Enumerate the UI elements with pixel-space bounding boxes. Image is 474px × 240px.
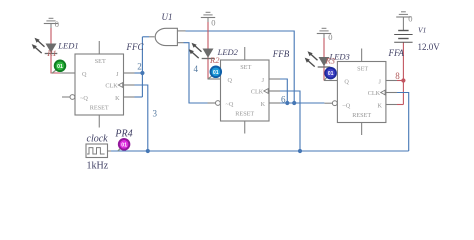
svg-text:RESET: RESET [352,112,371,119]
svg-text:R3: R3 [325,56,335,66]
svg-text:01: 01 [328,71,334,77]
svg-text:CLK: CLK [368,90,381,97]
svg-text:~Q: ~Q [80,95,88,102]
svg-text:V1: V1 [418,26,426,35]
svg-text:Q: Q [344,78,349,85]
svg-text:FFC: FFC [126,42,145,52]
svg-text:SET: SET [95,58,106,65]
svg-text:01: 01 [213,70,219,76]
svg-text:~Q: ~Q [342,102,350,109]
svg-text:CLK: CLK [105,82,118,89]
svg-text:Q: Q [228,77,233,84]
svg-text:K: K [261,101,266,108]
svg-text:RESET: RESET [235,111,254,118]
svg-text:K: K [115,95,120,102]
svg-text:01: 01 [57,64,63,70]
svg-text:R1: R1 [46,48,56,58]
svg-text:FFA: FFA [388,48,405,58]
svg-text:6: 6 [281,95,286,105]
svg-text:~Q: ~Q [226,101,234,108]
svg-text:SET: SET [357,66,368,73]
svg-text:SET: SET [240,64,251,71]
svg-text:0: 0 [328,32,332,42]
svg-text:U1: U1 [162,12,173,22]
svg-text:0: 0 [55,19,59,29]
svg-text:3: 3 [153,109,158,119]
svg-text:CLK: CLK [251,88,264,95]
svg-text:8: 8 [395,71,400,81]
svg-text:LED1: LED1 [57,41,78,51]
svg-text:2: 2 [137,61,142,71]
svg-text:PR4: PR4 [114,128,132,139]
svg-text:Q: Q [82,71,87,78]
svg-text:FFB: FFB [272,49,290,59]
svg-text:clock: clock [87,134,109,145]
svg-text:K: K [377,102,382,109]
svg-text:4: 4 [194,64,199,74]
svg-text:01: 01 [121,142,127,148]
svg-text:LED2: LED2 [217,47,239,57]
svg-text:0: 0 [211,18,215,28]
svg-text:R2: R2 [209,55,220,65]
svg-text:RESET: RESET [90,105,109,112]
svg-text:1kHz: 1kHz [87,161,109,172]
svg-text:12.0V: 12.0V [418,42,441,52]
svg-text:0: 0 [408,14,412,24]
